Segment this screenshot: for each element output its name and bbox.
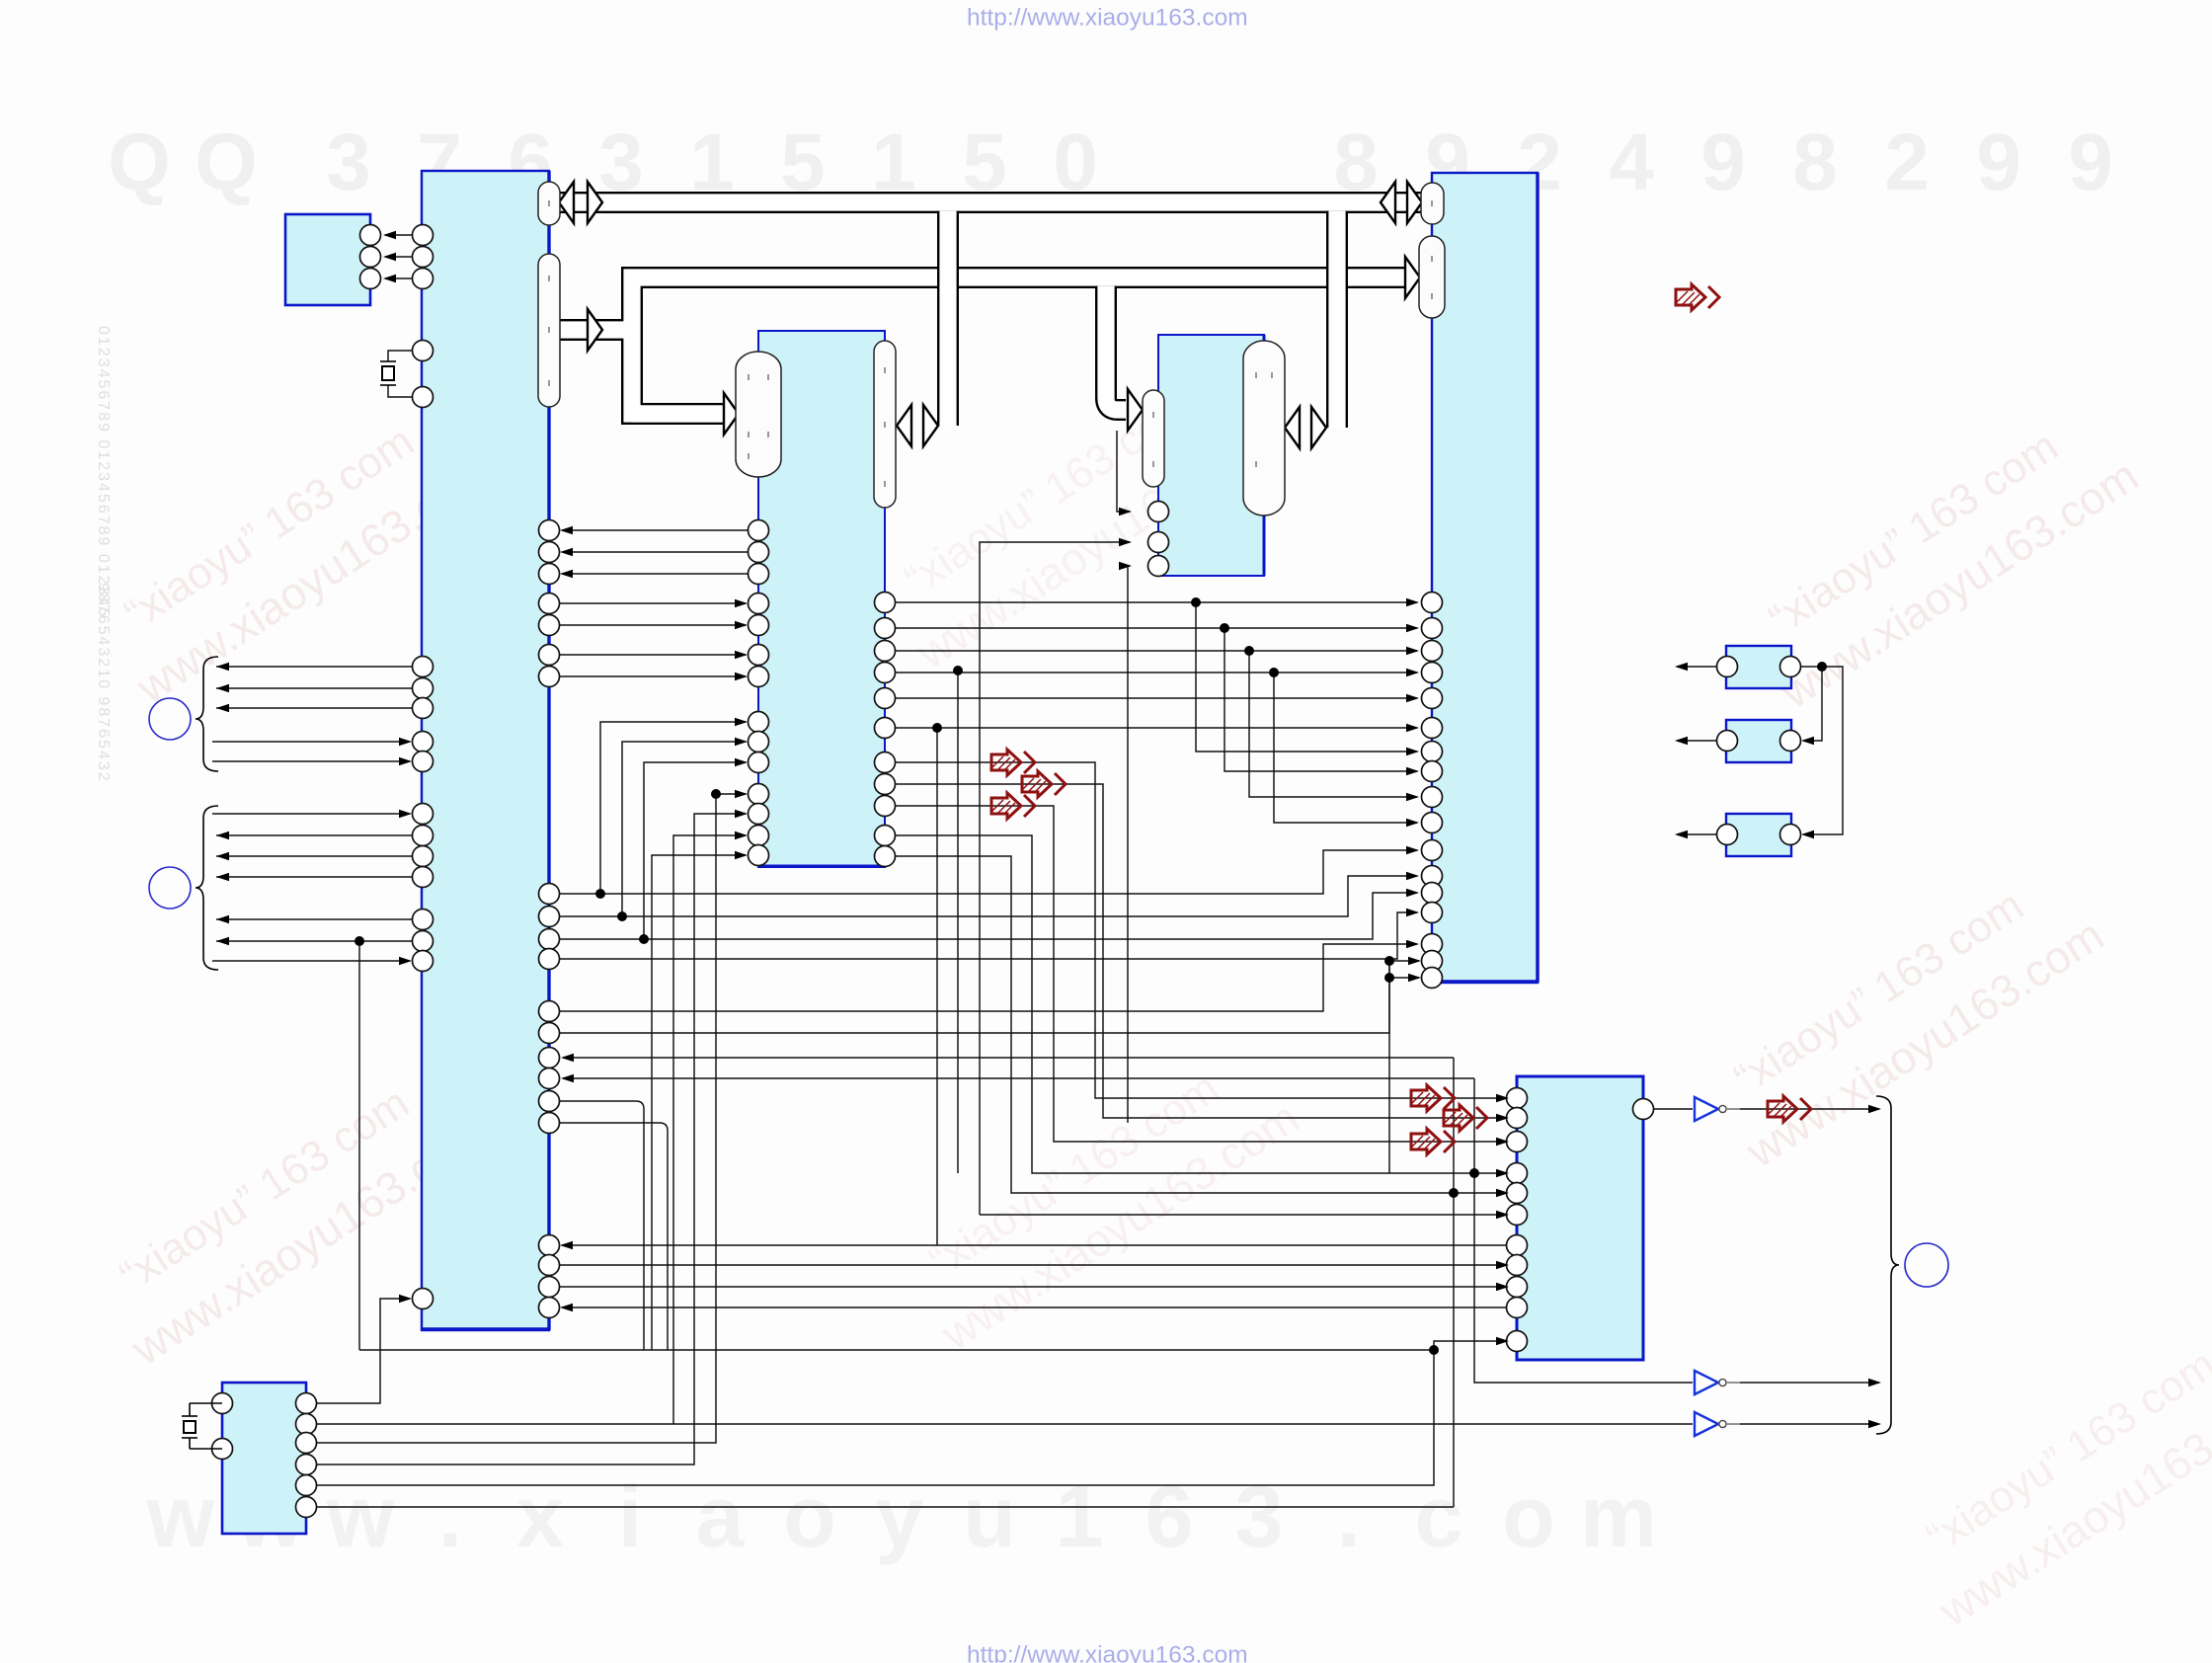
bus drop V3: [1326, 211, 1348, 428]
signal arrow net C2: [1411, 1129, 1455, 1154]
bus arrow into bus B: [588, 309, 602, 351]
bus main top: [559, 192, 1422, 213]
wire port-out row 717: [216, 707, 412, 709]
bus B with elbow and S3 arm: [632, 277, 1410, 414]
wire row 611: [560, 602, 746, 604]
wire row1504: [317, 1350, 1434, 1485]
signal arrow audio out: [1768, 1096, 1811, 1122]
svg-text:3: 3: [326, 118, 371, 207]
svg-text:.: .: [1337, 1467, 1361, 1565]
wire stair 761: [1196, 602, 1417, 752]
wire row 685: [560, 675, 746, 677]
wire v1407 down: [1388, 978, 1390, 1173]
U3 border emphasis: [1263, 335, 1266, 576]
bus port S5 on U3: [1143, 390, 1164, 487]
wire row 663: [560, 654, 746, 656]
wire row 681: [896, 672, 1417, 673]
wire row1261: [562, 1244, 1507, 1246]
wire XTAL-block row 260: [385, 256, 412, 258]
wire branch905: [600, 722, 746, 894]
bus port S6 on U3: [1243, 341, 1285, 515]
bus port S8 on U4: [1419, 236, 1445, 318]
brace left group1: [196, 657, 218, 771]
wire row1137: [560, 1123, 668, 1350]
wire loopback out 845: [1677, 833, 1716, 835]
wire pin990 feed: [1389, 961, 1419, 978]
wire row1024: [560, 944, 1417, 1011]
bus arrow into IC2 stadium: [724, 393, 739, 435]
bus port S4 on U2: [874, 341, 896, 508]
wire row1483: [317, 814, 746, 1465]
wire buf1 out: [1724, 1108, 1879, 1110]
wire buf3 out: [1724, 1423, 1879, 1425]
IC block U1 (CPU tall): [422, 171, 549, 1330]
wire row 737: [896, 727, 1417, 729]
signal arrow net B: [1022, 771, 1066, 797]
wire port-in row 771: [212, 760, 410, 762]
wire port-out row 953: [216, 940, 412, 942]
wire net row846: [896, 835, 1507, 1173]
IC block U5 (bottom right): [1517, 1076, 1643, 1360]
wire XTAL-block row 238: [385, 234, 412, 236]
wire row1303: [560, 1286, 1507, 1288]
wire XTAL-block row 282: [385, 277, 412, 279]
wire port-in row 973: [212, 960, 410, 962]
svg-text:http://www.xiaoyu163.com: http://www.xiaoyu163.com: [967, 1642, 1248, 1663]
svg-text:6: 6: [1145, 1467, 1194, 1565]
U1 pins left: [413, 225, 434, 1309]
brace right output: [1876, 1096, 1899, 1434]
wire B2 pin846: [673, 835, 746, 1424]
wire buf1 in: [1654, 1108, 1693, 1110]
wire row1092: [563, 1077, 1474, 1079]
wire B3 pin549: [980, 542, 1130, 1215]
buffer block U10: [1726, 720, 1791, 762]
IC block U4 (right tall): [1432, 173, 1538, 983]
wire net row772: [896, 762, 1507, 1098]
signal arrow net B2: [1444, 1105, 1487, 1131]
wire net953 drop: [358, 941, 360, 1350]
bus drop V3: [1328, 211, 1345, 428]
wire arrowheads: [216, 231, 1881, 1428]
wire row1324: [562, 1307, 1507, 1308]
U10 pins: [1717, 731, 1801, 752]
svg-text:3: 3: [1235, 1467, 1284, 1565]
U5 pins left: [1507, 1088, 1528, 1352]
wire port-out row 888: [216, 876, 412, 878]
svg-text:2: 2: [1884, 118, 1930, 207]
wire v1472: [1453, 1058, 1455, 1507]
signal arrow top right: [1676, 284, 1719, 310]
wire branch928: [622, 742, 746, 916]
wire B3 pin573: [1128, 566, 1130, 1123]
buffer block U9: [1726, 646, 1791, 688]
wire port-in row 824: [212, 813, 410, 815]
bus S3 arm: [632, 403, 727, 425]
IC block U8 (top-left): [285, 214, 370, 305]
svg-text:y: y: [876, 1467, 924, 1565]
wire v949: [936, 728, 938, 1245]
wire row 633: [560, 624, 746, 626]
wire row905: [560, 850, 1417, 894]
svg-text:o: o: [783, 1467, 836, 1565]
svg-text:Q: Q: [195, 118, 258, 207]
bus arrow double V1-IC2: [897, 405, 911, 446]
signal arrow net C: [991, 793, 1035, 819]
wire bus row 559: [562, 551, 748, 553]
buffer Q1: [1695, 1097, 1740, 1121]
bus port S3 on U2: [736, 352, 781, 477]
bus S3 arm: [632, 405, 727, 422]
bus S2 arm: [559, 319, 632, 341]
crystal X1: [380, 361, 396, 385]
wire row 636: [896, 627, 1417, 629]
wire row1526: [317, 1506, 1454, 1508]
wire B3 pin518: [1117, 431, 1130, 512]
signal arrow net A2: [1411, 1085, 1455, 1111]
wire row1046: [560, 961, 1419, 1033]
svg-text:m: m: [1580, 1467, 1657, 1565]
IC block U3: [1158, 335, 1264, 576]
wire B5 pin1358: [1434, 1341, 1507, 1350]
wire v970: [957, 671, 959, 1173]
wire port-out row 675: [216, 666, 412, 668]
wire stair 781: [1224, 628, 1417, 771]
wire row951: [560, 893, 1417, 939]
wire port-out row 867: [216, 855, 412, 857]
bus port S7 on U4: [1421, 183, 1444, 224]
wire loopback mid: [1803, 667, 1822, 741]
wire stair 807: [1249, 651, 1417, 797]
svg-text:4: 4: [1609, 118, 1654, 207]
signal arrow net A: [991, 750, 1035, 775]
wire port-out row 697: [216, 687, 412, 689]
wire buf3 row1442: [317, 1423, 1693, 1425]
wire row971: [560, 912, 1417, 959]
bus S2 arm: [559, 321, 632, 338]
connector circle CN2: [149, 867, 191, 909]
wire branch951: [644, 762, 746, 939]
svg-text:u: u: [963, 1467, 1016, 1565]
IC block U7 (bottom left): [222, 1383, 306, 1534]
svg-text:9: 9: [2068, 118, 2113, 207]
bus B with elbow and S3 arm: [632, 277, 1410, 414]
U2 border emphasis: [758, 865, 885, 868]
U7 pins right: [296, 1393, 317, 1518]
wire net row816: [896, 806, 1507, 1142]
bus main top: [559, 194, 1422, 210]
wire crystal X1 bottom: [388, 385, 412, 397]
U8 pins right: [360, 225, 381, 289]
wire buf2 out: [1724, 1382, 1879, 1384]
U9 pins: [1717, 657, 1801, 677]
U1 border emphasis: [422, 171, 549, 1330]
bus S5 drop arm: [1106, 286, 1126, 410]
U4 pins left: [1422, 593, 1443, 989]
svg-text:http://www.xiaoyu163.com: http://www.xiaoyu163.com: [967, 5, 1248, 32]
connector circle CN3: [1905, 1243, 1948, 1287]
wire IC7 clockout: [317, 1299, 410, 1403]
U2 pins left: [749, 520, 769, 866]
wire loopback right: [1801, 667, 1843, 834]
wire row1071: [563, 1057, 1454, 1059]
svg-text:8: 8: [1792, 118, 1838, 207]
bus S5 drop arm: [1106, 286, 1126, 410]
wire row1281: [560, 1264, 1507, 1266]
U1 pins right: [539, 520, 560, 1318]
svg-text:w: w: [146, 1467, 215, 1565]
bus arrow double right end: [1381, 182, 1395, 223]
buffer block U11: [1726, 814, 1791, 856]
wire net row794: [896, 784, 1507, 1118]
svg-text:a: a: [696, 1467, 746, 1565]
connector circle CN1: [149, 698, 191, 740]
svg-text:0123456789 0123456789 012345: 0123456789 0123456789 012345: [95, 326, 112, 618]
wire crystal X1 top: [388, 351, 412, 361]
U7 pins left: [212, 1393, 233, 1460]
bus drop V1: [939, 211, 956, 426]
wire bus row 537: [562, 529, 748, 531]
brace left group2: [196, 806, 218, 970]
U4 border emphasis: [1432, 173, 1538, 983]
wire port-out row 846: [216, 834, 412, 836]
wire row 707: [896, 697, 1417, 699]
wire B2 pin866: [652, 855, 746, 1350]
svg-text:Q: Q: [108, 118, 171, 207]
svg-text:.: .: [438, 1467, 462, 1565]
wire loopback out 675: [1677, 666, 1716, 668]
svg-text:9: 9: [1976, 118, 2021, 207]
U3 pins left: [1148, 502, 1169, 577]
svg-text:1: 1: [1056, 1467, 1104, 1565]
U2 pins right: [875, 593, 896, 867]
wire v1493 buf2: [1474, 1078, 1693, 1383]
buffer Q2: [1695, 1371, 1740, 1394]
bus drop V1: [937, 211, 959, 426]
svg-text:o: o: [1502, 1467, 1555, 1565]
wire row1115: [560, 1101, 644, 1350]
svg-text:w: w: [326, 1467, 395, 1565]
bus arrow into IC4 stadium S8: [1405, 257, 1420, 298]
wire row928: [560, 876, 1417, 916]
stadium pin ticks: [549, 200, 1432, 487]
wire row 610: [896, 601, 1417, 603]
U11 pins: [1717, 825, 1801, 845]
wire port-in row 751: [212, 741, 410, 743]
wire net row867: [896, 856, 1507, 1193]
svg-text:x: x: [516, 1467, 565, 1565]
bus arrow into IC3 stadium: [1128, 389, 1143, 431]
wire port-out row 931: [216, 918, 412, 920]
bus port S2 on U1: [538, 254, 560, 407]
svg-text:c: c: [1415, 1467, 1463, 1565]
U5 pin right: [1633, 1099, 1654, 1120]
wire loopback out 750: [1677, 740, 1716, 742]
bus port S1 on U1: [538, 182, 560, 225]
wire row 659: [896, 650, 1417, 652]
IC block U2 (middle): [758, 331, 885, 867]
svg-text:i: i: [618, 1467, 642, 1565]
wire row1367: [359, 1349, 1434, 1351]
bus arrow double V3-IC3: [1285, 407, 1300, 448]
wire bus row 581: [562, 573, 748, 575]
svg-text:9876543210 98765432: 9876543210 98765432: [95, 583, 112, 783]
svg-text:9: 9: [1700, 118, 1746, 207]
crystal X2: [182, 1403, 222, 1449]
wire row1230: [980, 1214, 1507, 1216]
buffer Q3: [1695, 1412, 1740, 1436]
wire stair 833: [1274, 673, 1417, 823]
bus arrow double left end: [559, 182, 574, 223]
wire row1461: [317, 794, 746, 1443]
